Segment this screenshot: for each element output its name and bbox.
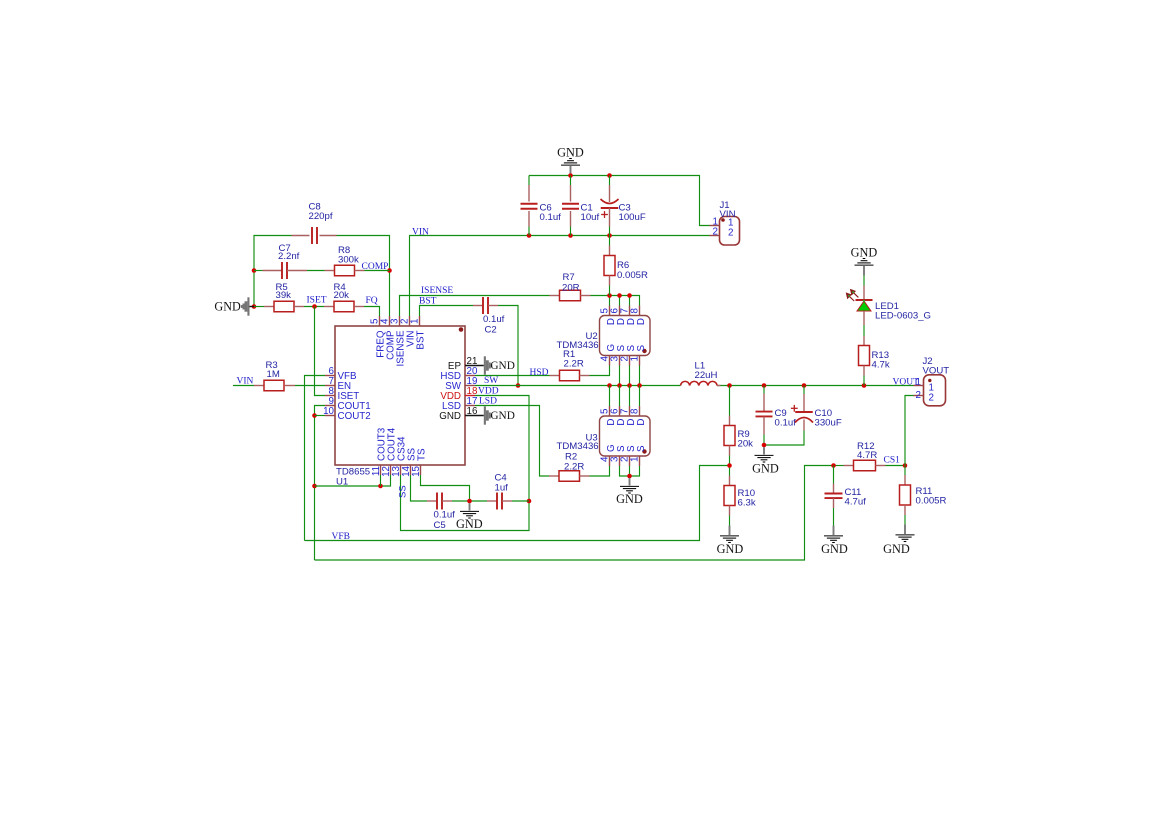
inductor L1 [681,360,721,385]
wire C11 bottom [833,508,835,526]
label ISENSE [421,286,453,296]
svg-text:C5: C5 [434,520,446,531]
wire R13 branch [863,376,865,386]
resistor R9 [724,416,753,456]
wire R10 bottom [729,516,731,526]
capacitor C4 [487,473,512,510]
wire LED link [863,325,865,336]
wire VFB pin6 down-left [305,376,326,541]
resistor R2 [549,451,590,481]
svg-text:VIN: VIN [412,228,429,238]
capacitor C9 [756,394,797,435]
svg-text:GND: GND [752,462,779,476]
wire ISENSE drop D8 [629,296,631,306]
svg-text:2.2nf: 2.2nf [278,251,300,262]
svg-text:10uf: 10uf [581,212,600,223]
svg-text:39k: 39k [276,290,292,301]
wire VIN-EN row [233,385,325,387]
svg-text:GND: GND [821,542,848,556]
label VIN top [412,228,429,238]
svg-text:2: 2 [728,227,733,238]
U1 pin 4 COMP [380,316,397,360]
label BST [419,296,437,306]
svg-text:S: S [636,445,647,452]
U1 pin 5 FREQ [370,316,387,358]
svg-text:GND: GND [214,299,241,313]
U1 pin 8 ISET [325,386,359,402]
ground flag left [214,297,254,315]
U1 pin 18 VDD [440,386,478,402]
wire C8 feedback rail [254,236,390,317]
svg-text:220pf: 220pf [309,211,333,222]
ground R10 [717,526,744,557]
ground flag EP [465,356,515,374]
svg-text:GND: GND [557,146,584,160]
svg-text:COUT2: COUT2 [338,411,371,422]
svg-text:10: 10 [323,406,334,417]
node ISENSE D7 [627,293,632,298]
label COMP [362,262,389,272]
svg-text:VFB: VFB [332,532,350,542]
U1 pin 6 VFB [325,366,357,382]
wire VDD loop [401,396,530,531]
resistor R4 [324,282,364,312]
svg-text:SW: SW [484,376,498,386]
ground C9 C10 [752,447,779,475]
node COMP junction [387,268,392,273]
svg-text:C2: C2 [485,325,497,336]
svg-text:VOUT: VOUT [923,365,950,376]
wire U3 gate run [590,466,610,476]
svg-text:GND: GND [490,360,514,372]
wire ISENSE row [400,296,640,317]
wire VFB long rail [305,466,730,541]
svg-text:GND: GND [616,492,643,506]
U1 pin 10 COUT2 [323,406,371,422]
svg-text:GND: GND [439,411,461,422]
wire pin11 drop [380,475,382,486]
wire LED top [863,276,865,286]
node C1 bottom [568,233,573,238]
label CS1 [884,456,901,466]
wire BST row [420,306,519,386]
node ISET [312,304,317,309]
U1 pin 14 SS [401,447,418,476]
label HSD [530,368,549,378]
node SW C10 [802,383,807,388]
svg-text:CS1: CS1 [884,456,901,466]
node C5 gnd [467,499,472,504]
node C3 bottom R6 [607,233,612,238]
node SW C9 [762,383,767,388]
wire SW row right [717,385,913,387]
capacitor C2 [473,297,505,336]
node SW L1 [727,383,732,388]
wire U2 S2 drop [629,366,631,386]
svg-text:BST: BST [419,296,437,306]
wire R11 link [904,466,906,476]
svg-text:330uF: 330uF [815,418,842,429]
node SW R13 [862,383,867,388]
label LSD [479,396,497,406]
label ISET [307,295,327,305]
svg-text:300k: 300k [338,254,359,265]
wire ISENSE drop D7 [619,296,621,306]
wire U2 S3 drop [639,366,641,386]
wire C9 branch [763,386,765,394]
wire COMP row [254,270,390,272]
svg-text:1: 1 [630,457,641,462]
svg-text:TDM3436: TDM3436 [557,441,599,452]
svg-text:1: 1 [410,319,421,324]
svg-text:COMP: COMP [362,262,389,272]
label VOUT1 [893,377,922,388]
svg-text:100uF: 100uF [619,212,646,223]
svg-text:TS: TS [417,448,428,461]
node COUT2 [312,413,317,418]
svg-text:VIN: VIN [720,209,736,220]
U1 pin 9 COUT1 [325,396,371,412]
wire R11 bottom [904,515,906,525]
U1 pin 17 LSD [442,396,477,412]
svg-text:4.7uf: 4.7uf [845,497,867,508]
svg-text:GND: GND [456,517,483,531]
wire R9 branch [729,386,731,416]
wire bottom rail [315,466,834,561]
node SW d [637,383,642,388]
svg-text:BST: BST [416,330,427,349]
node CS1 [903,463,908,468]
svg-text:LED-0603_G: LED-0603_G [875,310,931,321]
svg-text:0.1uf: 0.1uf [540,212,562,223]
resistor R6 [604,236,648,296]
ground flag pin16 [465,406,515,424]
resistor R12 [844,441,886,471]
svg-text:1uf: 1uf [495,482,509,493]
svg-text:2: 2 [916,390,921,401]
capacitor C11 [825,484,867,509]
wire J2 pin2 drop [905,396,914,466]
transistor array U2 [557,306,651,366]
U1 pin 7 EN [325,376,351,392]
U1 pin 2 VIN [400,316,417,347]
node SW b [617,383,622,388]
node COUT lower [312,484,317,489]
ground top [557,146,584,174]
svg-text:GND: GND [490,410,514,422]
wire ISENSE drop D6 [609,296,611,306]
node left rail top [252,268,257,273]
svg-text:FQ: FQ [366,296,378,306]
svg-text:GND: GND [717,542,744,556]
svg-text:D: D [636,419,647,426]
svg-text:D: D [636,318,647,325]
capacitor C1 [562,176,600,236]
svg-text:VDD: VDD [478,386,499,396]
wire pin11 pin12 tie [315,475,391,486]
led LED1 [847,286,932,326]
svg-text:0.005R: 0.005R [916,496,947,507]
wire SW row left [475,385,681,387]
node VDD C4 [527,499,532,504]
wire COUT2 stub [315,415,326,417]
svg-text:0.1uf: 0.1uf [434,510,456,521]
node R9 R10 junction [727,463,732,468]
node C6 bottom [527,233,532,238]
wire LSD run [475,406,549,477]
U1 pin 1 BST [410,316,427,350]
wire R9-R10 node [729,456,731,476]
node ISENSE D6 [617,293,622,298]
label FQ [366,296,378,306]
node C1 top [568,173,573,178]
capacitor C3 polarized [601,176,646,236]
wire top GND rail [529,176,710,226]
capacitor C7 [263,243,308,279]
node U3 src gnd [627,474,632,479]
ground top right [851,246,878,276]
svg-text:VIN: VIN [237,376,254,386]
svg-text:20k: 20k [738,439,754,450]
ground C11 [821,526,848,557]
svg-text:TDM3436: TDM3436 [557,340,599,351]
capacitor C10 polarized [791,394,842,431]
node SW a [607,383,612,388]
node C11 R12 [831,463,836,468]
label VFB [332,532,350,542]
resistor R13 [859,336,890,376]
svg-text:ISET: ISET [307,295,327,305]
svg-text:8: 8 [630,408,641,414]
connector J1 [710,200,740,245]
ground U3 sources [616,478,643,506]
wire C4 right [512,500,529,502]
wire SS pin14 down [411,475,428,501]
wire U3 drains up [610,386,640,407]
wire VIN bus [410,236,710,317]
svg-text:1: 1 [630,356,641,361]
label VDD [478,386,499,396]
label SS rotated [398,485,409,498]
svg-text:S: S [636,345,647,352]
wire ISET row [254,307,380,317]
capacitor C6 [521,176,562,236]
svg-text:LSD: LSD [479,396,497,406]
ground R11 [883,525,914,557]
U1 pin 16 GND [439,406,478,422]
svg-text:20R: 20R [562,282,580,293]
op-amp controller U1 body [335,326,465,488]
svg-text:4.7k: 4.7k [872,359,890,370]
svg-text:0.005R: 0.005R [617,270,648,281]
U1 pin 20 HSD [440,366,478,382]
node left rail bottom [252,304,257,309]
U1 pin 12 COUT4 [381,427,398,477]
wire R12-CS1 row [834,465,906,467]
wire U2 S1 drop [619,366,621,386]
label VIN left [237,376,254,386]
resistor R8 [325,245,365,276]
resistor R3 [254,360,295,391]
transistor array U3 [557,406,651,466]
capacitor C5 [427,493,455,532]
wire ISET to pin8 [315,307,326,396]
node C9 gnd row [762,443,767,448]
wire TS pin15 down [421,475,470,501]
svg-text:2: 2 [929,393,934,404]
node SW c [627,383,632,388]
resistor R5 [264,282,304,312]
svg-text:U1: U1 [336,477,348,488]
svg-text:2.2R: 2.2R [564,462,584,473]
wire C10 branch [803,386,805,395]
U1 pin 15 TS [411,448,428,477]
connector J2 [914,356,950,406]
svg-text:22uH: 22uH [695,370,718,381]
wire C9-C10 gnd row [764,431,804,446]
resistor R7 [550,272,591,301]
svg-text:20k: 20k [334,290,350,301]
svg-text:6.3k: 6.3k [738,498,756,509]
wire U3 sources tie [620,466,640,476]
node C3 top [607,173,612,178]
U1 pin 13 CS34 [391,436,408,477]
wire HSD row [475,366,610,376]
resistor R1 [550,349,590,381]
svg-text:15: 15 [411,465,422,476]
svg-text:1: 1 [916,377,921,388]
node pin11 join [378,484,383,489]
svg-text:GND: GND [851,246,878,260]
svg-text:8: 8 [630,308,641,314]
svg-text:4.7R: 4.7R [857,450,877,461]
svg-text:SS: SS [398,485,409,498]
svg-text:ISENSE: ISENSE [421,286,453,296]
U1 pin 19 SW [445,376,477,392]
node ISENSE D5 [607,293,612,298]
U1 pin 11 COUT3 [371,427,388,476]
wire C5-C4 mid [452,500,487,502]
svg-text:HSD: HSD [530,368,549,378]
svg-text:2: 2 [713,227,718,238]
wire C11 top [833,466,835,484]
svg-text:2.2R: 2.2R [564,358,584,369]
svg-text:GND: GND [883,542,910,556]
U1 pin 21 EP [448,356,477,372]
svg-text:1M: 1M [267,369,280,380]
capacitor C8 [292,202,337,245]
resistor R10 [724,476,756,516]
svg-text:0.1uf: 0.1uf [775,418,797,429]
ground C5 [456,503,483,531]
node BST-SW [516,383,521,388]
resistor R11 [900,475,947,515]
label SW [484,376,498,386]
svg-text:0.1uf: 0.1uf [483,314,505,325]
U1 pin 3 ISENSE [390,316,407,366]
wire COUT1/COUT2 tie [315,406,326,561]
